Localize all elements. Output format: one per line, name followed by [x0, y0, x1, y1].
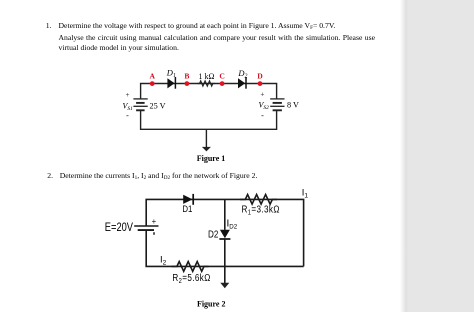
right gray panel — [400, 0, 474, 312]
svg-text:ID2: ID2 — [227, 219, 238, 231]
svg-text:8 V: 8 V — [287, 101, 299, 110]
ground fig2 — [220, 283, 229, 289]
svg-text:25 V: 25 V — [150, 101, 166, 110]
battery VS1 — [133, 99, 147, 110]
svg-text:R1=3.3kΩ: R1=3.3kΩ — [242, 204, 280, 217]
svg-text:E=20V: E=20V — [105, 222, 133, 234]
node D — [258, 81, 263, 86]
battery E — [134, 226, 158, 230]
diode D1 (fig2) — [183, 194, 193, 205]
paragraph 2 — [47, 171, 447, 183]
svg-text:1 kΩ: 1 kΩ — [199, 72, 215, 81]
svg-text:Figure 1: Figure 1 — [197, 154, 226, 163]
resistor R1 — [240, 195, 277, 205]
svg-text:C: C — [219, 72, 224, 81]
node B — [185, 81, 190, 86]
resistor 1kΩ (fig1) — [197, 81, 215, 86]
wire: fig2 bottom — [146, 230, 303, 266]
svg-text:I1: I1 — [302, 187, 309, 200]
svg-text:-: - — [261, 111, 264, 120]
svg-text:+: + — [126, 91, 130, 99]
wire: fig1 bottom — [141, 110, 277, 129]
wire: D2 branch — [224, 199, 226, 229]
svg-text:-: - — [126, 111, 129, 120]
svg-text:D: D — [257, 72, 263, 81]
battery VS2 — [270, 99, 284, 110]
svg-text:Figure 2: Figure 2 — [197, 299, 226, 308]
svg-text:VS2: VS2 — [259, 101, 270, 112]
wire: fig1 top — [141, 84, 277, 100]
node A — [150, 81, 155, 86]
svg-text:D2: D2 — [237, 68, 247, 80]
svg-text:+: + — [152, 217, 157, 226]
diode D1 (fig1) — [167, 77, 175, 89]
svg-text:D2: D2 — [208, 229, 218, 240]
svg-text:D1: D1 — [166, 68, 176, 80]
minus E — [153, 232, 155, 235]
svg-text:R2=5.6kΩ: R2=5.6kΩ — [172, 272, 210, 285]
svg-text:B: B — [184, 72, 189, 81]
paragraph 1 — [46, 21, 446, 53]
wire: fig2 top — [146, 199, 303, 266]
svg-text:A: A — [149, 72, 155, 81]
node C — [220, 81, 225, 86]
svg-text:+: + — [261, 91, 265, 99]
diode D2 (fig1) — [238, 77, 246, 89]
diode D2 (fig2) — [219, 230, 230, 239]
resistor R2 — [172, 262, 209, 272]
svg-text:I2: I2 — [160, 254, 167, 267]
ground fig1 — [202, 129, 211, 151]
svg-text:D1: D1 — [182, 203, 192, 214]
